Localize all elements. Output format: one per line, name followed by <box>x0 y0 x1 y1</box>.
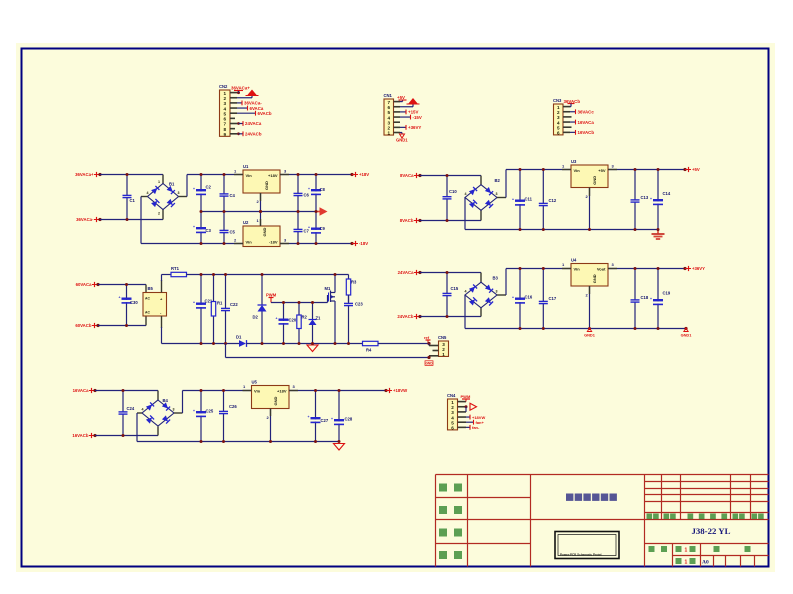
svg-text:GND: GND <box>592 274 597 283</box>
svg-text:U1: U1 <box>243 164 249 169</box>
svg-text:CN5: CN5 <box>438 335 447 340</box>
svg-text:+18V: +18V <box>277 389 287 394</box>
svg-text:B5: B5 <box>148 286 154 291</box>
svg-text:+18V: +18V <box>268 173 278 178</box>
svg-text:1: 1 <box>158 180 160 184</box>
svg-text:B1: B1 <box>169 182 175 187</box>
svg-text:+: + <box>331 417 333 421</box>
svg-text:GND: GND <box>273 396 278 405</box>
svg-text:C25: C25 <box>206 409 214 414</box>
svg-text:B4: B4 <box>163 398 169 403</box>
svg-text:CN3: CN3 <box>553 98 562 103</box>
svg-text:C9: C9 <box>320 226 326 231</box>
svg-text:C4: C4 <box>230 193 236 198</box>
svg-text:-15V: -15V <box>413 115 422 120</box>
svg-text:ref: ref <box>424 335 430 340</box>
svg-text:24VACb: 24VACb <box>397 314 414 319</box>
svg-text:D2: D2 <box>253 315 259 320</box>
svg-text:J38-22 YL: J38-22 YL <box>691 526 730 536</box>
svg-text:+: + <box>308 226 310 230</box>
svg-text:Power-PCB Schematic Protel: Power-PCB Schematic Protel <box>560 553 602 557</box>
svg-text:-18V: -18V <box>359 241 368 246</box>
svg-text:C14: C14 <box>663 191 671 196</box>
svg-text:36VACa+: 36VACa+ <box>231 86 250 91</box>
svg-text:4: 4 <box>142 408 144 412</box>
svg-text:AC: AC <box>145 297 150 301</box>
svg-text:GND: GND <box>592 176 597 185</box>
svg-text:Vin: Vin <box>246 240 253 245</box>
svg-text:3: 3 <box>496 290 498 294</box>
svg-text:+: + <box>193 409 195 413</box>
svg-text:+: + <box>193 225 195 229</box>
svg-text:+5V: +5V <box>692 167 700 172</box>
svg-text:3: 3 <box>173 408 175 412</box>
svg-text:C2: C2 <box>206 185 212 190</box>
svg-text:+5V: +5V <box>397 95 405 100</box>
svg-text:C16: C16 <box>525 295 533 300</box>
svg-text:C28: C28 <box>345 417 353 422</box>
svg-text:C11: C11 <box>525 197 533 202</box>
svg-text:60VACb: 60VACb <box>75 323 92 328</box>
svg-text:C23: C23 <box>355 302 363 307</box>
svg-text:24VACa: 24VACa <box>398 270 415 275</box>
svg-text:C20: C20 <box>289 318 297 323</box>
svg-text:GND: GND <box>425 361 433 365</box>
svg-text:C6: C6 <box>304 193 310 198</box>
svg-text:3: 3 <box>178 191 180 195</box>
svg-text:6VACb: 6VACb <box>258 111 272 116</box>
svg-text:+: + <box>276 317 278 321</box>
svg-text:+: + <box>193 301 195 305</box>
svg-text:Vin: Vin <box>574 267 581 272</box>
svg-text:+: + <box>193 187 195 191</box>
svg-text:B3: B3 <box>493 276 499 281</box>
svg-text:PWM: PWM <box>461 394 471 399</box>
svg-text:C10: C10 <box>449 189 457 194</box>
svg-text:16VACa: 16VACa <box>578 120 595 125</box>
svg-text:C22: C22 <box>230 302 238 307</box>
svg-text:RT1: RT1 <box>171 266 180 271</box>
svg-text:C13: C13 <box>641 195 649 200</box>
svg-text:CN4: CN4 <box>447 393 456 398</box>
svg-text:GND1: GND1 <box>584 333 596 338</box>
svg-text:16VACb: 16VACb <box>72 433 89 438</box>
svg-text:8VACa: 8VACa <box>400 173 414 178</box>
svg-text:4: 4 <box>465 290 467 294</box>
svg-text:3: 3 <box>496 192 498 196</box>
svg-text:R4: R4 <box>366 348 372 353</box>
svg-text:1: 1 <box>387 131 390 136</box>
svg-text:2: 2 <box>158 212 160 216</box>
svg-text:8VACb: 8VACb <box>400 218 414 223</box>
svg-text:16VACa: 16VACa <box>73 388 90 393</box>
svg-text:U5: U5 <box>252 380 258 385</box>
svg-text:C27: C27 <box>321 418 329 423</box>
svg-text:1: 1 <box>685 548 688 554</box>
svg-text:+: + <box>308 415 310 419</box>
svg-text:60VACa: 60VACa <box>76 282 93 287</box>
svg-text:C15: C15 <box>451 286 459 291</box>
svg-text:+: + <box>512 296 514 300</box>
svg-text:C12: C12 <box>549 198 557 203</box>
svg-text:Vin: Vin <box>246 173 253 178</box>
svg-text:+18V: +18V <box>359 172 369 177</box>
svg-text:C8: C8 <box>320 187 326 192</box>
svg-text:C18: C18 <box>641 295 649 300</box>
svg-text:36VACc: 36VACc <box>578 109 595 114</box>
svg-text:Vin: Vin <box>574 168 581 173</box>
svg-text:+5V: +5V <box>598 168 606 173</box>
svg-text:C19: C19 <box>663 291 671 296</box>
svg-text:AC: AC <box>145 311 150 315</box>
svg-text:B2: B2 <box>495 178 501 183</box>
svg-text:GND1: GND1 <box>396 138 408 143</box>
svg-text:fan-: fan- <box>472 425 480 430</box>
svg-text:+18VW: +18VW <box>393 388 408 393</box>
svg-text:1: 1 <box>442 352 445 357</box>
svg-text:+36VY: +36VY <box>408 125 421 130</box>
svg-text:CN2: CN2 <box>219 84 228 89</box>
svg-text:+: + <box>650 197 652 201</box>
svg-text:GND: GND <box>262 227 267 236</box>
svg-text:6: 6 <box>451 426 454 431</box>
svg-text:A0: A0 <box>702 560 709 566</box>
svg-text:Vin: Vin <box>254 389 261 394</box>
svg-text:+: + <box>650 297 652 301</box>
svg-text:GND1: GND1 <box>681 333 693 338</box>
svg-text:C26: C26 <box>229 404 237 409</box>
svg-text:U2: U2 <box>243 220 249 225</box>
svg-text:36VACa-: 36VACa- <box>76 217 94 222</box>
svg-text:6: 6 <box>557 131 560 136</box>
svg-text:+36VY: +36VY <box>692 266 705 271</box>
svg-text:C24: C24 <box>127 406 135 411</box>
svg-text:C5: C5 <box>230 230 236 235</box>
svg-text:16VACb: 16VACb <box>578 130 595 135</box>
svg-text:U3: U3 <box>571 159 577 164</box>
svg-text:24VACa: 24VACa <box>245 121 262 126</box>
svg-text:Vout: Vout <box>597 267 606 272</box>
svg-text:C3: C3 <box>206 228 212 233</box>
svg-text:4: 4 <box>465 192 467 196</box>
svg-text:R3: R3 <box>351 280 357 285</box>
svg-text:PWM: PWM <box>266 293 277 298</box>
svg-text:36VACa+: 36VACa+ <box>75 172 94 177</box>
svg-text:-18V: -18V <box>269 240 278 245</box>
svg-text:9: 9 <box>223 132 226 137</box>
svg-text:U4: U4 <box>571 258 577 263</box>
svg-text:C30: C30 <box>130 300 138 305</box>
svg-text:1: 1 <box>685 560 688 566</box>
svg-text:+: + <box>119 296 121 300</box>
svg-text:Z1: Z1 <box>316 316 322 321</box>
svg-text:M1: M1 <box>325 286 331 291</box>
svg-text:GND: GND <box>264 181 269 190</box>
svg-text:+: + <box>308 187 310 191</box>
svg-text:R2: R2 <box>302 315 308 320</box>
svg-text:R1: R1 <box>217 301 223 306</box>
svg-text:24VACb: 24VACb <box>245 132 262 137</box>
svg-text:C1: C1 <box>130 198 136 203</box>
svg-text:D1: D1 <box>236 335 242 340</box>
svg-text:C17: C17 <box>549 296 557 301</box>
svg-text:+: + <box>512 198 514 202</box>
svg-text:CN1: CN1 <box>384 93 393 98</box>
svg-text:4: 4 <box>147 191 149 195</box>
